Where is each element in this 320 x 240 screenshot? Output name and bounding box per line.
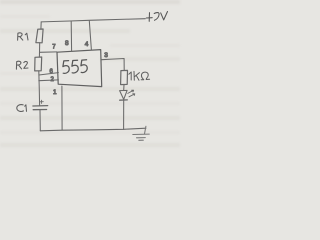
wire pin 4 to rail (89, 21, 91, 50)
wire C1 to ground rail (39, 110, 41, 131)
wire pin 3 output (102, 59, 125, 71)
wire LED to rail (123, 100, 125, 129)
diode LED D1 (120, 90, 128, 99)
label 555 (63, 60, 87, 74)
label R2 (16, 61, 28, 69)
wire pin 8 to rail (70, 22, 72, 52)
wire pin 7 branch (40, 51, 57, 53)
wire R2 to C1 (38, 71, 41, 106)
wire bottom ground rail (40, 128, 146, 131)
ground symbol (133, 126, 150, 140)
wire pin 2 branch (39, 79, 59, 82)
svg-text:6: 6 (50, 69, 54, 75)
svg-text:7: 7 (52, 45, 56, 51)
wire 1k to LED (123, 85, 125, 91)
IC U1: 555 timer box (57, 50, 102, 87)
svg-text:8: 8 (65, 40, 69, 47)
power +9V label (146, 12, 167, 22)
svg-text:4: 4 (85, 41, 89, 48)
resistor R2 (35, 57, 42, 71)
label C1 (17, 105, 27, 112)
svg-text:3: 3 (104, 52, 108, 59)
LED light arrows (128, 90, 135, 97)
label R1 (18, 33, 28, 40)
wire R1 top stub (40, 22, 42, 29)
svg-text:1: 1 (53, 89, 57, 96)
value label 1 kOhm (129, 71, 150, 80)
wire pin 1 to rail (61, 86, 63, 130)
wire pin 6 branch (39, 73, 59, 75)
resistor 1k ohm (121, 70, 128, 84)
resistor R1 (36, 29, 43, 43)
capacitor C1 (33, 106, 48, 110)
paper show-through stripes (decorative) (0, 0, 180, 4)
wire R1 to R2 (node pin7 branch) (38, 43, 40, 57)
wire Vcc top rail (41, 19, 145, 22)
